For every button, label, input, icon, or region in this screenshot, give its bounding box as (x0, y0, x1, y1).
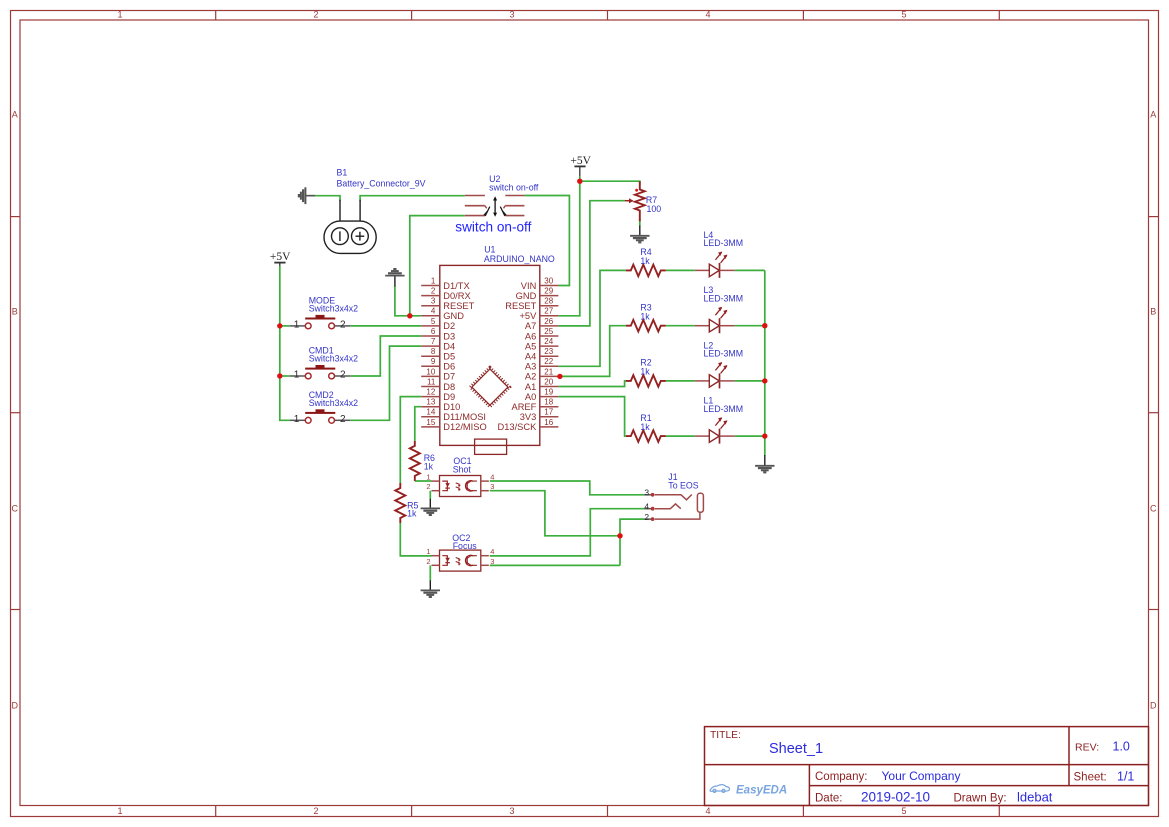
svg-text:TITLE:: TITLE: (710, 730, 741, 741)
svg-text:Sheet:: Sheet: (1074, 771, 1107, 783)
svg-text:EasyEDA: EasyEDA (736, 785, 787, 797)
label MODE (309, 296, 336, 306)
svg-text:29: 29 (544, 287, 553, 296)
wire OC1 pin 3 to sleeve junction (490, 491, 620, 536)
svg-text:9: 9 (431, 357, 436, 366)
svg-text:8: 8 (431, 347, 436, 356)
wire R4 to L4 (666, 269, 695, 271)
label 1k (R2) (640, 367, 650, 377)
wire CMD2 switch to pin 7 D4 (350, 346, 421, 420)
svg-text:+5V: +5V (270, 251, 291, 263)
junction dot J1 sleeve (617, 533, 622, 538)
svg-text:1: 1 (431, 276, 436, 285)
svg-text:7: 7 (431, 337, 436, 346)
svg-text:Switch3x4x2: Switch3x4x2 (309, 354, 358, 364)
wire switch U2 lower pin to GND net (410, 216, 465, 316)
wire R6 to OC1 pin 1 (415, 480, 432, 482)
svg-text:D8: D8 (443, 382, 455, 392)
U1 pin 2 (D0/RX) (421, 287, 470, 301)
svg-text:25: 25 (544, 327, 553, 336)
wire +5V rail down to pin 27 (558, 181, 579, 316)
svg-text:D4: D4 (443, 341, 455, 351)
svg-text:2: 2 (431, 287, 436, 296)
U1 pin 24 (A5) (525, 337, 558, 351)
wire CMD1 switch to pin 6 D3 (350, 336, 421, 376)
wire OC2 pin 3 wire (490, 564, 620, 566)
svg-text:4: 4 (490, 473, 494, 482)
wire pin 21 A2 to R3 (558, 326, 625, 377)
U1 chip glyph (diamond QFP) (470, 367, 509, 406)
svg-text:A5: A5 (525, 341, 536, 351)
svg-text:1k: 1k (640, 422, 650, 432)
svg-text:21: 21 (544, 367, 553, 376)
svg-text:A: A (1150, 110, 1156, 120)
svg-text:19: 19 (544, 388, 553, 397)
svg-text:3: 3 (490, 482, 494, 491)
svg-text:10: 10 (426, 367, 435, 376)
svg-text:REV:: REV: (1075, 742, 1099, 754)
svg-text:Focus: Focus (453, 541, 478, 551)
date row (815, 789, 1053, 804)
svg-text:1/1: 1/1 (1117, 769, 1134, 783)
svg-text:2019-02-10: 2019-02-10 (861, 789, 930, 804)
U1 pin 13 (D10) (421, 398, 460, 412)
svg-text:1: 1 (117, 10, 122, 20)
wire L3 to cathode rail (735, 325, 765, 327)
label ARDUINO_NANO (484, 254, 555, 264)
junction dot L2 cathode (762, 378, 767, 383)
svg-text:1: 1 (426, 547, 430, 556)
wire OC1 pin 2 to ground (429, 491, 431, 500)
svg-text:LED-3MM: LED-3MM (704, 349, 744, 359)
wire +5V left rail for switches (280, 266, 290, 420)
svg-text:VIN: VIN (521, 281, 537, 291)
svg-text:To EOS: To EOS (668, 481, 698, 491)
label 100 (647, 204, 662, 214)
svg-text:16: 16 (544, 418, 553, 427)
svg-text:1: 1 (294, 320, 300, 331)
wire OC2 pin 2 to ground (429, 565, 431, 581)
wire L4 to cathode rail (735, 269, 765, 271)
svg-text:D1/TX: D1/TX (443, 281, 469, 291)
label 1k (R5) (407, 509, 417, 519)
svg-text:1: 1 (294, 370, 300, 381)
svg-text:D: D (1150, 701, 1157, 711)
U1 pin 17 (3V3) (520, 408, 559, 422)
svg-text:D3: D3 (443, 331, 455, 341)
svg-text:3: 3 (490, 557, 494, 566)
svg-text:A: A (12, 110, 18, 120)
U1 pin 4 (GND) (421, 307, 464, 321)
label L3 (704, 285, 714, 295)
svg-text:4: 4 (705, 806, 710, 816)
ground (battery minus, rotated left) (299, 187, 315, 204)
U1 pin 20 (A1) (525, 377, 558, 391)
svg-text:5: 5 (901, 10, 906, 20)
wire L1 to cathode rail (735, 435, 765, 437)
svg-text:18: 18 (544, 398, 553, 407)
svg-text:RESET: RESET (443, 301, 474, 311)
svg-text:1k: 1k (424, 461, 434, 471)
connector J1 (audio jack To EOS) (644, 488, 703, 522)
wire R5 to OC2 pin 1 (400, 523, 431, 556)
label U1 (484, 245, 495, 255)
LED L4 (695, 252, 735, 278)
label R1 (640, 413, 651, 423)
svg-text:+5V: +5V (519, 311, 537, 321)
svg-text:D7: D7 (443, 372, 455, 382)
svg-text:24: 24 (544, 337, 553, 346)
label B1 (337, 167, 348, 177)
svg-text:13: 13 (426, 398, 435, 407)
svg-text:26: 26 (544, 317, 553, 326)
svg-text:1k: 1k (407, 509, 417, 519)
label R7 (646, 195, 657, 205)
U1 pin 19 (A0) (525, 388, 558, 402)
svg-text:A4: A4 (525, 352, 536, 362)
svg-text:3V3: 3V3 (520, 412, 537, 422)
wire MODE rail stub (280, 325, 290, 327)
svg-text:GND: GND (443, 311, 464, 321)
wire OC1 pin 4 to J1 pin 3 (490, 481, 645, 495)
svg-text:A3: A3 (525, 362, 536, 372)
label LED-3MM (L2) (704, 349, 744, 359)
label R6 (424, 453, 435, 463)
svg-text:3: 3 (644, 488, 649, 498)
svg-text:2: 2 (340, 370, 346, 381)
label To EOS (668, 481, 698, 491)
wire battery plus to switch U2 pin (360, 196, 465, 201)
svg-text:11: 11 (427, 377, 436, 386)
svg-text:17: 17 (544, 408, 553, 417)
svg-text:1: 1 (294, 414, 300, 425)
svg-text:23: 23 (544, 347, 553, 356)
svg-text:A0: A0 (525, 392, 536, 402)
svg-text:D12/MISO: D12/MISO (443, 422, 486, 432)
label 1k (R1) (640, 422, 650, 432)
label L4 (704, 230, 714, 240)
junction dot pin 21 A2 (557, 374, 562, 379)
U1 pin 21 (A2) (525, 367, 558, 381)
U1 pin 30 (VIN) (521, 276, 559, 290)
svg-text:2: 2 (313, 10, 318, 20)
svg-text:C: C (12, 504, 19, 514)
svg-text:1: 1 (426, 473, 430, 482)
U1 pin 29 (GND) (516, 287, 559, 301)
label OC1 (453, 456, 471, 466)
svg-text:Date:: Date: (815, 792, 843, 804)
svg-text:A7: A7 (525, 321, 536, 331)
wire MODE switch to pin 5 D2 (350, 325, 421, 327)
wire pin 13 D10 to R6 (415, 407, 421, 441)
resistor R2 (626, 375, 666, 387)
sheet title Sheet_1 (769, 741, 823, 757)
svg-text:D9: D9 (443, 392, 455, 402)
U1 pin 25 (A6) (525, 327, 558, 341)
label R5 (407, 500, 418, 510)
wire pin 12 D9 to R5 (400, 397, 421, 483)
wire pin 20 A1 to R2 (558, 381, 625, 387)
title block (705, 727, 1149, 806)
resistor R3 (626, 320, 666, 332)
svg-text:5: 5 (901, 806, 906, 816)
optocoupler OC2 (432, 550, 489, 571)
U1 pin 26 (A7) (525, 317, 558, 331)
svg-text:D13/SCK: D13/SCK (498, 422, 538, 432)
U1 pin 3 (RESET) (421, 297, 474, 311)
label Shot (453, 465, 472, 475)
ground (LED cathode rail) (755, 455, 774, 472)
svg-text:2: 2 (426, 557, 430, 566)
label switch on-off (small) (489, 182, 539, 192)
ground (OC1 pin 2) (421, 499, 440, 515)
U1 pin 9 (D6) (421, 357, 455, 371)
switch U2 (slide switch) (465, 196, 525, 217)
svg-text:D5: D5 (443, 352, 455, 362)
svg-text:4: 4 (705, 10, 710, 20)
label Battery_Connector_9V (337, 178, 426, 188)
svg-text:20: 20 (544, 377, 553, 386)
label 1k (R6) (424, 461, 434, 471)
svg-text:A6: A6 (525, 331, 536, 341)
wire ground stem to GND junction (395, 286, 410, 316)
U1 pin 18 (AREF) (512, 398, 559, 412)
label CMD2 (309, 390, 334, 400)
wire L2 to cathode rail (735, 380, 765, 382)
label OC2 (452, 533, 470, 543)
label 1k (R4) (640, 256, 650, 266)
svg-text:D0/RX: D0/RX (443, 291, 470, 301)
svg-text:A1: A1 (525, 382, 536, 392)
svg-text:6: 6 (431, 327, 436, 336)
svg-text:2: 2 (426, 482, 430, 491)
svg-text:Drawn By:: Drawn By: (954, 792, 1007, 804)
svg-text:4: 4 (644, 502, 649, 512)
label J1 (668, 472, 677, 482)
svg-text:4: 4 (490, 547, 494, 556)
LED L1 (695, 417, 735, 443)
label LED-3MM (L1) (704, 404, 744, 414)
label Switch3x4x2 (CMD2) (309, 398, 358, 408)
net label switch on-off (455, 219, 531, 234)
wire pin 22 A3 to R4 (558, 270, 625, 366)
wire R1 to L1 (666, 435, 695, 437)
svg-text:2: 2 (644, 512, 649, 522)
OC1 pin numbers (426, 473, 494, 492)
U1 pin 22 (A3) (525, 357, 558, 371)
junction dot +5V rail (577, 179, 582, 184)
label L1 (704, 396, 714, 406)
U1 pin 27 (+5V) (519, 307, 558, 321)
svg-text:Sheet_1: Sheet_1 (769, 741, 823, 757)
label R2 (640, 358, 651, 368)
svg-text:14: 14 (426, 408, 435, 417)
svg-text:AREF: AREF (512, 402, 537, 412)
svg-text:D: D (12, 701, 19, 711)
U1 pin 6 (D3) (421, 327, 455, 341)
svg-text:LED-3MM: LED-3MM (704, 238, 744, 248)
svg-text:B: B (1150, 307, 1156, 317)
switch CMD1 (Switch3x4x2) (290, 365, 350, 381)
label CMD1 (309, 346, 334, 356)
svg-text:15: 15 (426, 418, 435, 427)
svg-text:C: C (1150, 504, 1157, 514)
resistor R1 (626, 430, 666, 442)
wire +5V rail to R7 top (580, 181, 640, 184)
svg-text:28: 28 (544, 297, 553, 306)
LED L3 (695, 307, 735, 333)
svg-text:ldebat: ldebat (1017, 789, 1053, 804)
resistor R7 (trimmer) (625, 181, 645, 221)
label Switch3x4x2 (CMD1) (309, 354, 358, 364)
svg-text:5: 5 (431, 317, 436, 326)
battery connector B1 (324, 200, 376, 254)
svg-text:LED-3MM: LED-3MM (704, 294, 744, 304)
switch MODE (Switch3x4x2) (290, 315, 350, 331)
svg-text:A2: A2 (525, 372, 536, 382)
svg-text:switch on-off: switch on-off (455, 219, 531, 234)
optocoupler OC1 (432, 476, 489, 497)
label LED-3MM (L4) (704, 238, 744, 248)
ground (GND net above pin 4, flipped up) (385, 269, 404, 286)
LED L2 (695, 362, 735, 388)
wire R2 to L2 (666, 380, 695, 382)
power +5V (top, main rail) (570, 155, 591, 181)
label U2 (489, 174, 500, 184)
svg-text:Your Company: Your Company (882, 769, 961, 783)
resistor R6 (410, 441, 420, 481)
junction dot L3 cathode (762, 323, 767, 328)
U1 pin 23 (A4) (525, 347, 558, 361)
svg-text:LED-3MM: LED-3MM (704, 404, 744, 414)
wire R7 bottom to ground (639, 219, 641, 227)
U1 pin 5 (D2) (421, 317, 455, 331)
resistor R4 (626, 265, 666, 277)
REV label (1075, 740, 1130, 754)
U1 pin 1 (D1/TX) (421, 276, 469, 290)
wire OC2 pin 4 to J1 pin 4 (490, 509, 645, 556)
power +5V (left, mode switches rail) (270, 251, 291, 266)
U1 pin 10 (D7) (421, 367, 455, 381)
svg-text:2: 2 (340, 320, 346, 331)
U1 pin 12 (D9) (421, 388, 455, 402)
svg-text:4: 4 (431, 307, 436, 316)
label L2 (704, 340, 714, 350)
svg-text:RESET: RESET (505, 301, 536, 311)
wire LED cathode rail to ground (764, 270, 766, 455)
svg-text:switch on-off: switch on-off (489, 182, 539, 192)
sheet number (1074, 769, 1135, 783)
svg-text:3: 3 (509, 10, 514, 20)
wire switch U2 to VIN pin 30 (524, 196, 569, 286)
svg-text:1k: 1k (640, 311, 650, 321)
svg-text:30: 30 (544, 276, 553, 285)
svg-text:1k: 1k (640, 256, 650, 266)
label LED-3MM (L3) (704, 294, 744, 304)
title text TITLE: (710, 730, 741, 741)
U1 pin 8 (D5) (421, 347, 455, 361)
svg-text:1: 1 (117, 806, 122, 816)
svg-text:3: 3 (509, 806, 514, 816)
svg-text:ARDUINO_NANO: ARDUINO_NANO (484, 254, 555, 264)
U1 pin 11 (D8) (421, 377, 455, 391)
ground (R7 bottom) (630, 226, 649, 243)
svg-text:1.0: 1.0 (1113, 740, 1130, 754)
svg-text:2: 2 (340, 414, 346, 425)
svg-text:Switch3x4x2: Switch3x4x2 (309, 303, 358, 313)
wire R7 wiper to pin 26 A7 (558, 201, 625, 326)
OC2 pin numbers (426, 547, 494, 566)
label R4 (640, 247, 651, 257)
switch CMD2 (Switch3x4x2) (290, 409, 350, 425)
svg-text:GND: GND (516, 291, 537, 301)
junction dot MODE rail (277, 323, 282, 328)
U1 pin 28 (RESET) (505, 297, 558, 311)
svg-text:D10: D10 (443, 402, 460, 412)
wire CMD1 rail stub (280, 375, 290, 377)
svg-text:B: B (12, 307, 18, 317)
svg-text:Switch3x4x2: Switch3x4x2 (309, 398, 358, 408)
label 1k (R3) (640, 311, 650, 321)
ground (OC2 pin 2) (421, 580, 440, 597)
label Focus (453, 541, 478, 551)
svg-text:2: 2 (313, 806, 318, 816)
svg-text:B1: B1 (337, 167, 348, 177)
svg-text:27: 27 (544, 307, 553, 316)
label R3 (640, 303, 651, 313)
svg-text:1k: 1k (640, 367, 650, 377)
svg-text:Shot: Shot (453, 465, 472, 475)
svg-text:22: 22 (544, 357, 553, 366)
wire sleeve junction to J1 pin 2 (620, 519, 645, 565)
svg-text:12: 12 (426, 388, 435, 397)
svg-text:Company:: Company: (815, 771, 867, 783)
wire pin 19 A0 to R1 (558, 397, 625, 437)
U1 pin 15 (D12/MISO) (421, 418, 487, 432)
EasyEDA logo (710, 785, 787, 797)
junction dot GND/pin4 (407, 313, 412, 318)
svg-text:3: 3 (431, 297, 436, 306)
junction dot CMD1 rail (277, 373, 282, 378)
Arduino Nano U1 body (440, 265, 540, 454)
resistor R5 (395, 483, 405, 523)
svg-text:D6: D6 (443, 362, 455, 372)
wire battery minus to ground (306, 196, 340, 201)
svg-text:+5V: +5V (570, 155, 591, 167)
label Switch3x4x2 (MODE) (309, 303, 358, 313)
svg-text:D11/MOSI: D11/MOSI (443, 412, 486, 422)
svg-text:D2: D2 (443, 321, 455, 331)
junction dot L1 cathode (762, 433, 767, 438)
svg-text:Battery_Connector_9V: Battery_Connector_9V (337, 178, 426, 188)
U1 pin 14 (D11/MOSI) (421, 408, 486, 422)
U1 pin 16 (D13/SCK) (498, 418, 559, 432)
svg-text:100: 100 (647, 204, 662, 214)
company row (815, 769, 960, 783)
wire R3 to L3 (666, 325, 695, 327)
U1 pin 7 (D4) (421, 337, 455, 351)
